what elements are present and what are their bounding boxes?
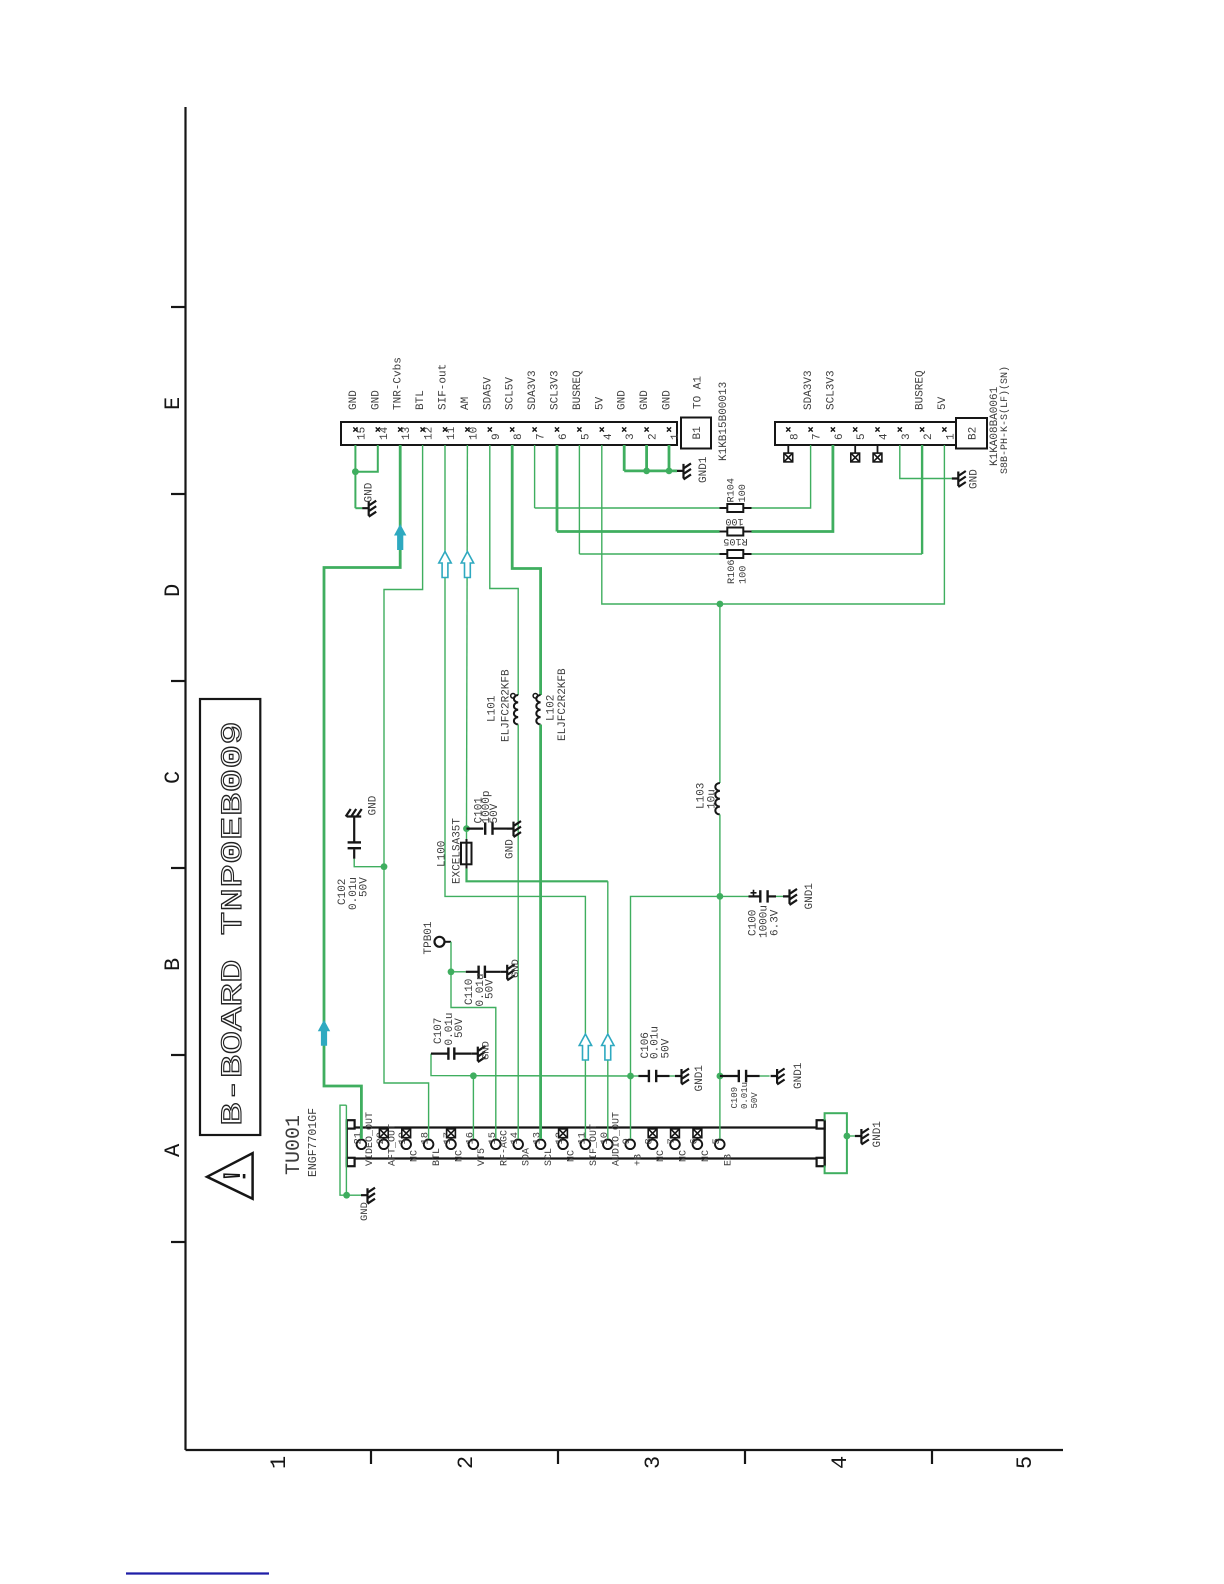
svg-text:1: 1	[945, 433, 957, 440]
svg-text:K1KB15B00013: K1KB15B00013	[718, 382, 730, 461]
wire SCL3V3 B1 pin6 to R105	[556, 445, 559, 532]
svg-text:NC: NC	[679, 1150, 690, 1162]
svg-text:SDA5V: SDA5V	[482, 377, 494, 410]
svg-text:16: 16	[464, 1132, 476, 1145]
svg-text:NC: NC	[656, 1150, 667, 1162]
svg-text:5: 5	[711, 1138, 723, 1144]
inductor L102 ELJFC2R2KFB	[536, 695, 540, 725]
wire TU001 shell left to GND	[340, 1105, 347, 1195]
junction BTL / C102	[381, 863, 388, 870]
svg-text:L102: L102	[546, 695, 558, 721]
resistor R104 100	[720, 507, 728, 509]
wire R105 to B2 pin6	[752, 445, 833, 532]
svg-text:8: 8	[644, 1138, 656, 1144]
svg-text:NC: NC	[410, 1150, 421, 1162]
svg-text:8: 8	[513, 433, 525, 440]
svg-text:0.01u: 0.01u	[740, 1082, 750, 1109]
svg-text:1: 1	[670, 433, 682, 440]
svg-text:6.3V: 6.3V	[770, 909, 782, 936]
capacitor C110 0.01u 50V	[451, 971, 466, 973]
ground GND1 (shield)	[855, 1129, 869, 1145]
svg-text:SDA3V3: SDA3V3	[803, 370, 815, 410]
ground GND1 (C100)	[783, 889, 797, 905]
junction GND	[352, 468, 359, 475]
svg-text:14: 14	[379, 426, 391, 440]
no-connect pins TU001	[379, 1129, 388, 1138]
svg-text:100: 100	[738, 484, 749, 502]
capacitor C107 0.01u 50V	[431, 1052, 448, 1054]
svg-text:SCL: SCL	[544, 1148, 555, 1166]
svg-text:5V: 5V	[937, 396, 949, 410]
svg-text:C: C	[161, 771, 186, 784]
svg-text:50V: 50V	[489, 803, 501, 823]
capacitor C106 0.01u 50V	[631, 1075, 639, 1077]
svg-text:L100: L100	[437, 841, 449, 867]
svg-text:13: 13	[401, 427, 413, 440]
svg-text:18: 18	[420, 1132, 432, 1145]
capacitor C109 0.01u 50V	[720, 1075, 739, 1077]
svg-text:6: 6	[834, 433, 846, 440]
wire R104 to B2 pin7	[752, 445, 811, 508]
ground GND1 (B1)	[677, 463, 691, 479]
svg-text:TO A1: TO A1	[693, 376, 705, 409]
svg-text:ELJFC2R2KFB: ELJFC2R2KFB	[501, 669, 513, 742]
svg-text:SCL5V: SCL5V	[505, 377, 517, 410]
svg-text:11: 11	[446, 426, 458, 440]
svg-text:5V: 5V	[594, 396, 606, 410]
svg-text:NC: NC	[567, 1150, 578, 1162]
resistor R106 100	[720, 553, 728, 555]
connector B2 (K1KA08BA0061 S8B-PH-K-S(LF)(SN))	[775, 366, 1011, 474]
junction 5V / C100	[717, 893, 724, 900]
wire 5V to TU001 pin5	[719, 896, 721, 1076]
svg-text:EXCELSA35T: EXCELSA35T	[452, 818, 464, 884]
ground GND (C107)	[471, 1046, 485, 1062]
svg-text:50V: 50V	[359, 877, 371, 897]
ground GND (B2)	[952, 471, 966, 487]
svg-text:TNR-Cvbs: TNR-Cvbs	[393, 357, 405, 410]
svg-text:GND: GND	[364, 482, 376, 502]
svg-text:GND1: GND1	[698, 456, 710, 483]
wire BUSREQ B1 pin5 to R106	[578, 445, 580, 554]
svg-text:SDA3V3: SDA3V3	[527, 370, 539, 410]
ground GND (C101)	[507, 821, 521, 837]
svg-text:B-BOARD TNP0EB009: B-BOARD TNP0EB009	[217, 721, 251, 1126]
ground GND1 (C106)	[675, 1069, 689, 1085]
junction pin5 / C109	[717, 1073, 724, 1080]
svg-text:4: 4	[603, 433, 615, 440]
capacitor C102 0.01u 50V	[354, 859, 384, 867]
test point TPB01	[435, 937, 445, 947]
svg-text:9: 9	[621, 1138, 633, 1144]
svg-text:SIF_OUT: SIF_OUT	[589, 1124, 600, 1166]
wire SDA to TU001 pin14	[517, 725, 519, 1140]
ground GND (B1 pin15)	[362, 501, 376, 517]
svg-text:10: 10	[468, 427, 480, 440]
wire GND B1 pins 15,14	[354, 445, 356, 508]
svg-text:A: A	[161, 1143, 186, 1157]
svg-text:GND: GND	[370, 390, 382, 410]
svg-text:D: D	[161, 584, 186, 597]
svg-text:ENGF7701GF: ENGF7701GF	[307, 1108, 320, 1177]
svg-text:B: B	[161, 958, 186, 971]
svg-text:10u: 10u	[707, 789, 719, 809]
svg-text:11: 11	[576, 1132, 588, 1145]
junction AM / C101	[463, 825, 470, 832]
title box B-BOARD TNP0EB009	[200, 699, 260, 1135]
svg-text:GND1: GND1	[694, 1065, 706, 1092]
svg-text:3: 3	[641, 1456, 666, 1469]
svg-text:GND: GND	[617, 390, 629, 410]
svg-text:GND: GND	[348, 390, 360, 410]
svg-text:2: 2	[454, 1456, 479, 1469]
svg-text:RF-AGC: RF-AGC	[499, 1130, 510, 1166]
signal arrow SIF-out lower	[579, 1034, 591, 1060]
signal arrow SIF-out upper	[439, 552, 451, 578]
wire TPB01 to RF-AGC TU001 pin15	[451, 942, 496, 1139]
wire AM B1 pin10 to L100	[466, 445, 469, 829]
wire GND1 B1 pins 3,2,1	[623, 445, 626, 471]
svg-text:5: 5	[856, 433, 868, 440]
svg-text:50V: 50V	[661, 1038, 673, 1058]
svg-text:SCL3V3: SCL3V3	[825, 370, 837, 410]
svg-text:12: 12	[424, 427, 436, 440]
signal arrow TNR_Cvbs lower	[318, 1020, 330, 1046]
wire SDA3V3 B1 pin7 to R104	[534, 445, 536, 508]
svg-text:50V: 50V	[485, 979, 497, 999]
svg-text:2: 2	[923, 433, 935, 440]
svg-text:R105: R105	[723, 535, 747, 546]
tuner TU001 ENGF7701GF	[283, 1108, 825, 1177]
svg-text:GND: GND	[481, 1041, 493, 1060]
no-connect pins B2 8,5,4	[787, 445, 789, 453]
wire SCL to TU001 pin13	[539, 725, 542, 1140]
wire SCL5V B1 pin8 to L102	[512, 445, 540, 695]
svg-text:4: 4	[879, 433, 891, 440]
svg-text:15: 15	[356, 427, 368, 440]
svg-text:E: E	[161, 397, 186, 410]
wire VT/C107 net TU001 pin16	[431, 1054, 631, 1076]
svg-text:C109: C109	[730, 1087, 740, 1109]
junction shell GND	[343, 1192, 350, 1199]
tuner shield box right / GND1	[825, 1113, 847, 1173]
wire SIF-out B1 pin11 to TU001 pin11	[445, 445, 585, 1139]
svg-text:GND1: GND1	[793, 1062, 805, 1089]
junction +B / C106	[627, 1073, 634, 1080]
wire SDA5V B1 pin9 to L101	[490, 445, 518, 695]
signal arrow AM lower	[602, 1034, 614, 1060]
wire TNR_Cvbs B1 pin13 to TU001 pin21	[324, 445, 400, 1139]
svg-text:B2: B2	[968, 427, 980, 440]
svg-text:R106: R106	[727, 560, 738, 584]
svg-text:B1: B1	[692, 426, 704, 440]
svg-text:SIF-out: SIF-out	[438, 364, 450, 410]
svg-text:VT5: VT5	[477, 1148, 488, 1166]
wire 5V to TU001 pin9 (+B)	[631, 896, 720, 1139]
ferrite bead L100 EXCELSA35T	[461, 843, 472, 865]
wire BTL B1 pin12 to TU001 pin18	[384, 445, 429, 1139]
svg-text:6: 6	[558, 433, 570, 440]
svg-text:4: 4	[828, 1456, 853, 1469]
wire GND B2 pin3	[900, 445, 952, 479]
warning symbol	[207, 1153, 253, 1199]
junction 5V / L103	[717, 601, 724, 608]
svg-text:15: 15	[487, 1132, 499, 1145]
svg-text:7: 7	[666, 1138, 678, 1144]
svg-text:ELJFC2R2KFB: ELJFC2R2KFB	[557, 668, 569, 741]
junction shield GND1	[844, 1133, 851, 1140]
ground GND (C110)	[501, 964, 515, 980]
resistor R105 100	[720, 531, 728, 533]
junction pin16	[470, 1072, 477, 1079]
svg-text:1: 1	[267, 1456, 292, 1469]
svg-text:SDA: SDA	[522, 1148, 533, 1166]
inductor L101 ELJFC2R2KFB	[514, 695, 518, 725]
blue reference line	[126, 1572, 269, 1574]
junction TPB01 / C110	[448, 968, 455, 975]
svg-text:100: 100	[739, 566, 750, 584]
svg-text:3: 3	[625, 433, 637, 440]
svg-text:GND1: GND1	[804, 883, 816, 910]
svg-text:3: 3	[901, 433, 913, 440]
wire R106 to B2 pin2	[752, 553, 923, 555]
svg-text:GND: GND	[368, 795, 380, 815]
svg-text:GND: GND	[505, 839, 517, 859]
svg-text:10: 10	[599, 1132, 611, 1145]
svg-text:5: 5	[1013, 1456, 1038, 1469]
svg-text:50V: 50V	[750, 1092, 760, 1109]
capacitor C101 1000p 50V	[467, 827, 484, 829]
ground GND (C102)	[346, 809, 362, 823]
svg-text:EB: EB	[723, 1154, 734, 1166]
svg-text:BTL: BTL	[432, 1148, 443, 1166]
svg-text:6: 6	[688, 1138, 700, 1144]
junction GND1 pin2	[643, 468, 650, 475]
svg-text:NC: NC	[455, 1150, 466, 1162]
svg-text:R104: R104	[727, 478, 738, 502]
svg-text:GND: GND	[639, 390, 651, 410]
ground GND (TU001 shell)	[361, 1188, 375, 1204]
svg-text:GND: GND	[969, 469, 981, 489]
svg-text:AUDIO_OUT: AUDIO_OUT	[611, 1112, 622, 1166]
svg-text:TU001: TU001	[283, 1115, 306, 1175]
svg-text:AM: AM	[460, 397, 472, 410]
svg-text:BTL: BTL	[415, 390, 427, 410]
svg-text:S8B-PH-K-S(LF)(SN): S8B-PH-K-S(LF)(SN)	[999, 366, 1011, 474]
svg-text:5: 5	[580, 433, 592, 440]
svg-text:+B: +B	[634, 1154, 645, 1166]
capacitor C100 1000u 6.3V	[720, 895, 749, 897]
svg-text:SCL3V3: SCL3V3	[550, 370, 562, 410]
junction GND1 pin1	[666, 468, 673, 475]
svg-text:GND: GND	[662, 390, 674, 410]
inductor L103 10u on 5V line	[719, 604, 721, 783]
svg-text:NC: NC	[701, 1150, 712, 1162]
svg-text:7: 7	[536, 433, 548, 440]
wire 5V B1 pin4 to B2 pin1	[602, 445, 945, 604]
svg-text:9: 9	[491, 433, 503, 440]
svg-text:TPB01: TPB01	[423, 921, 435, 954]
connector B1 TO A1 (K1KB15B00013)	[341, 357, 730, 461]
svg-text:14: 14	[509, 1132, 521, 1145]
svg-text:L101: L101	[487, 695, 499, 722]
svg-text:50V: 50V	[454, 1018, 466, 1038]
svg-text:GND: GND	[510, 959, 522, 978]
svg-text:GND: GND	[359, 1202, 371, 1221]
svg-text:100: 100	[725, 515, 743, 526]
svg-text:BUSREQ: BUSREQ	[915, 370, 927, 410]
svg-text:BUSREQ: BUSREQ	[572, 370, 584, 410]
svg-text:2: 2	[648, 433, 660, 440]
signal arrow AM upper	[461, 552, 473, 578]
signal arrow TNR_Cvbs	[394, 524, 406, 550]
svg-text:7: 7	[812, 433, 824, 440]
svg-text:VIDEO_OUT: VIDEO_OUT	[365, 1112, 376, 1166]
ground GND1 (C109)	[771, 1069, 785, 1085]
svg-text:GND1: GND1	[872, 1121, 884, 1148]
svg-text:8: 8	[789, 433, 801, 440]
wire AM through L100 to TU001 pin10	[466, 829, 468, 839]
